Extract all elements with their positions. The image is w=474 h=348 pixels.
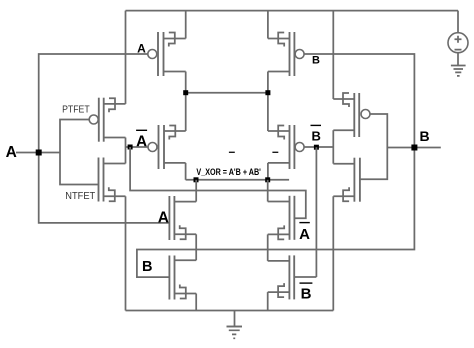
wire A' net down and across to gate of Q11 (130, 147, 306, 218)
node V_XOR left junction (194, 177, 199, 182)
transistor Q12 NMOS gate B' (bottom-right stack bottom, mirrored) (268, 255, 295, 299)
wire A' node to gate of Q3 (130, 146, 148, 148)
wire V_XOR down to Q9 (195, 180, 197, 202)
minus mark left (229, 151, 235, 153)
wire gate of Q4 to B' node (304, 146, 333, 148)
svg-text:V_XOR = A'B + AB': V_XOR = A'B + AB' (196, 167, 261, 177)
transistor Q4 PMOS gate B' (2nd row right, mirrored) (268, 125, 304, 169)
wire Q10 source to ground rail (195, 294, 197, 311)
wire Q8 source to ground rail (332, 196, 334, 310)
minus mark right (272, 151, 278, 153)
node P right junction (265, 90, 270, 95)
wire Q9 source to Q10 drain (195, 234, 197, 260)
label A-bar (gate of Q11) (299, 223, 310, 243)
transistor Q1 PMOS gate A (top-left) (148, 32, 186, 76)
wire node P horizontal (186, 92, 268, 94)
wire Q1 source down to node P (185, 72, 187, 132)
wire VDD drop to Q1 drain (185, 11, 187, 39)
wire VDD drop to Q2 drain (267, 11, 269, 39)
wire Q3 source down to V_XOR (185, 163, 187, 180)
wire B input stub (387, 147, 441, 149)
ground (right, below source) (451, 53, 466, 76)
wire gate of Q12 to B' net (294, 276, 316, 278)
wire VDD drop to PTFET (125, 11, 127, 104)
svg-text:PTFET: PTFET (62, 104, 90, 115)
svg-text:B: B (301, 286, 312, 303)
transistor Q11 NMOS gate A' (bottom-right stack top, mirrored) (268, 196, 295, 240)
node B-bar junction (314, 145, 319, 150)
svg-text:A: A (158, 209, 169, 226)
wire Q4 source down to V_XOR (267, 163, 269, 180)
wire right inverter output bar (332, 130, 334, 164)
wire gate of Q1 to input A node (39, 54, 170, 223)
wire left inverter input (60, 120, 99, 185)
transistor Q3 PMOS gate A' (2nd row left) (148, 125, 186, 169)
node P left junction (183, 90, 188, 95)
transistor Q6 NTFET NMOS (left inverter bottom) (99, 158, 126, 202)
wire ground rail (126, 310, 334, 312)
wire Q11 source to Q12 drain (267, 234, 269, 261)
label B-bar (gate of Q12) (300, 283, 313, 303)
wire right inverter input (360, 114, 387, 179)
transistor Q9 NMOS gate A (bottom-left stack top) (169, 196, 196, 240)
label B-bar (gate of Q4) (311, 125, 322, 143)
wire Q2 source down to node P (267, 72, 269, 132)
node B junction (411, 145, 417, 151)
transistor Q7 PMOS (right inverter top, mirrored) (333, 93, 370, 137)
wire Q12 source to ground rail (267, 292, 269, 310)
wire left inverter output bar (125, 138, 127, 164)
wire NTFET source to ground rail (125, 196, 127, 310)
node V_XOR right junction (265, 177, 270, 182)
transistor Q2 PMOS gate B (top-right, mirrored) (268, 32, 304, 76)
svg-text:B: B (420, 128, 430, 144)
svg-text:A: A (299, 226, 310, 243)
voltage source V1 (448, 11, 468, 53)
ground symbol (bottom center) (227, 311, 243, 339)
wire VDD drop to right inverter (332, 11, 334, 99)
transistor Q5 PTFET PMOS (left inverter top) (89, 98, 125, 142)
svg-text:NTFET: NTFET (65, 191, 95, 202)
transistor Q10 NMOS gate B (bottom-left stack bottom) (169, 256, 196, 300)
wire B' net down to gate of Q12 (315, 147, 317, 277)
svg-text:B: B (142, 259, 152, 275)
node A' junction (128, 145, 133, 150)
wire V_XOR node (186, 179, 290, 181)
svg-text:A: A (6, 144, 17, 161)
transistor Q8 NMOS (right inverter bottom, mirrored) (333, 158, 360, 202)
label A (gate of Q9) (158, 209, 169, 226)
label A-bar (gate of Q3) (136, 130, 147, 150)
wire output stub to A' node (126, 146, 131, 148)
wire V_XOR down to Q11 (267, 180, 269, 202)
node A junction (36, 150, 42, 156)
wire gate of Q2 to B line (137, 54, 415, 277)
wire input A stub (16, 152, 60, 154)
svg-text:B: B (312, 129, 321, 144)
wire VDD rail (126, 10, 459, 12)
svg-text:B: B (312, 55, 320, 67)
